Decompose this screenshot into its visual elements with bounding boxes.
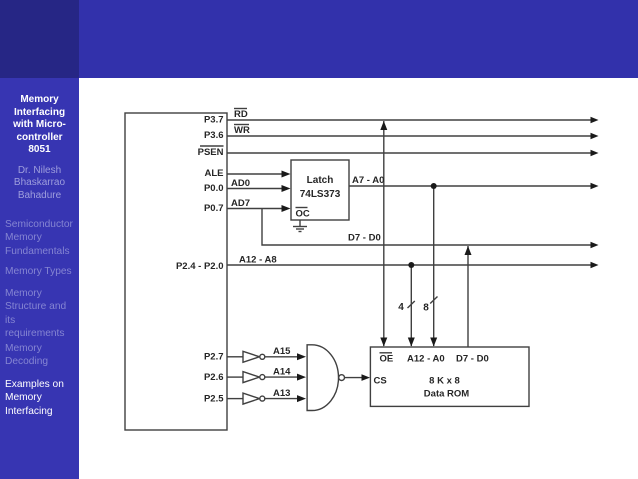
- svg-text:8 K x 8: 8 K x 8: [429, 376, 460, 387]
- svg-text:A13: A13: [273, 388, 290, 399]
- svg-text:A14: A14: [273, 367, 291, 378]
- svg-text:AD0: AD0: [231, 178, 250, 189]
- svg-text:74LS373: 74LS373: [300, 189, 341, 200]
- svg-text:P0.7: P0.7: [204, 203, 224, 214]
- svg-text:D7 - D0: D7 - D0: [348, 233, 381, 244]
- svg-text:OE: OE: [380, 354, 394, 365]
- svg-text:P2.6: P2.6: [204, 372, 224, 383]
- svg-text:P2.7: P2.7: [204, 352, 224, 363]
- svg-text:CS: CS: [374, 376, 387, 387]
- svg-text:A7 - A0: A7 - A0: [352, 175, 384, 186]
- svg-text:ALE: ALE: [205, 168, 224, 179]
- svg-text:P2.5: P2.5: [204, 394, 224, 405]
- svg-text:P0.0: P0.0: [204, 183, 224, 194]
- svg-text:Latch: Latch: [307, 175, 334, 186]
- svg-text:OC: OC: [296, 209, 310, 220]
- svg-text:PSEN: PSEN: [198, 147, 224, 158]
- svg-text:D7 - D0: D7 - D0: [456, 354, 489, 365]
- svg-text:4: 4: [398, 302, 404, 313]
- svg-text:AD7: AD7: [231, 198, 250, 209]
- svg-text:A12 - A0: A12 - A0: [407, 354, 445, 365]
- svg-text:Data ROM: Data ROM: [424, 389, 469, 400]
- svg-text:A12 - A8: A12 - A8: [239, 255, 277, 266]
- svg-text:P3.7: P3.7: [204, 115, 224, 126]
- svg-text:P3.6: P3.6: [204, 130, 224, 141]
- svg-text:WR: WR: [234, 125, 250, 136]
- svg-text:P2.4 - P2.0: P2.4 - P2.0: [176, 261, 224, 272]
- svg-text:RD: RD: [234, 109, 248, 120]
- svg-text:A15: A15: [273, 346, 291, 357]
- svg-text:8: 8: [423, 303, 429, 314]
